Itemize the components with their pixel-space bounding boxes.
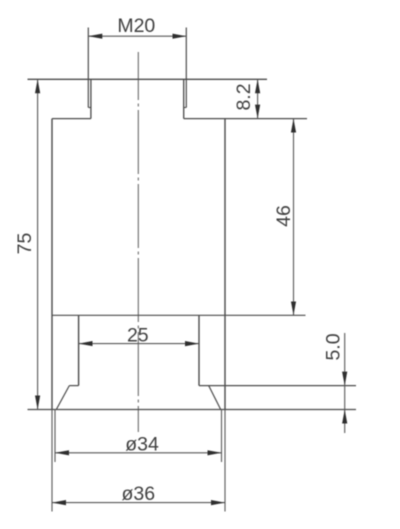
dimension dia36 line <box>52 502 225 504</box>
dia34 extension left <box>54 410 56 463</box>
svg-text:ø34: ø34 <box>125 434 159 456</box>
body left edge <box>51 119 53 410</box>
svg-text:46: 46 <box>273 205 295 227</box>
lip step left <box>69 385 78 387</box>
dimension 5.0 line with outside arrows <box>344 333 346 386</box>
dimension 75 line <box>37 79 39 409</box>
thread major line left <box>87 28 89 108</box>
neck right edge <box>198 315 200 385</box>
svg-text:25: 25 <box>127 325 149 347</box>
skirt taper left <box>56 386 69 410</box>
thread relief step left <box>88 107 91 109</box>
lip step right, extends as 5.0 dim extension <box>199 385 356 387</box>
centerline <box>137 52 139 432</box>
bottom face, extends both sides as extensions <box>28 409 357 411</box>
mid shoulder, extends as 46 dim extension <box>52 314 306 316</box>
svg-text:75: 75 <box>14 233 36 255</box>
thread major line right <box>185 28 187 108</box>
top shoulder right, extends as 46 dim extension <box>184 118 307 120</box>
thread minor line left <box>90 79 92 118</box>
thread relief step right <box>184 107 187 109</box>
dia36 extension right <box>224 410 226 512</box>
top shoulder left <box>52 118 91 120</box>
dimension M20 line <box>88 35 186 37</box>
dimension dia34 line <box>55 452 222 454</box>
body right edge <box>224 119 226 410</box>
part outline: top face <box>28 78 268 80</box>
dimension 25 line <box>79 343 199 345</box>
thread minor line right <box>183 79 185 118</box>
svg-text:M20: M20 <box>117 15 155 37</box>
dimension 46 line <box>293 119 295 316</box>
dia36 extension left <box>51 410 53 512</box>
svg-text:5.0: 5.0 <box>323 333 345 360</box>
dimension 8.2 line <box>257 79 259 118</box>
skirt taper right <box>209 386 221 410</box>
neck left edge <box>78 315 80 385</box>
svg-text:8.2: 8.2 <box>233 83 255 110</box>
svg-text:ø36: ø36 <box>121 483 155 505</box>
dia34 extension right <box>221 410 223 463</box>
